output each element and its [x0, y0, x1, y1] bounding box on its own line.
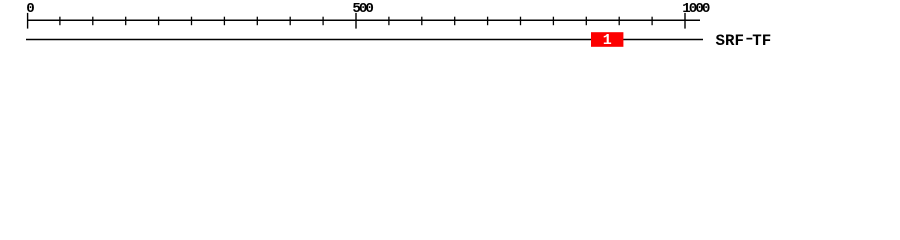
major tick 0	[27, 13, 29, 29]
sequence line	[26, 38, 703, 40]
svg-text:0: 0	[26, 1, 34, 17]
svg-text:1: 1	[603, 32, 612, 49]
svg-text:1000: 1000	[682, 1, 710, 17]
domain name dash	[746, 38, 752, 40]
svg-text:TF: TF	[752, 32, 771, 50]
domain hit box 1 (red)	[591, 32, 623, 47]
svg-text:SRF: SRF	[716, 32, 744, 50]
major tick 500	[355, 13, 357, 29]
svg-text:500: 500	[352, 1, 373, 17]
minor ticks every 50 units	[60, 17, 652, 26]
major tick 1000	[684, 13, 686, 29]
ruler axis line	[27, 19, 700, 21]
